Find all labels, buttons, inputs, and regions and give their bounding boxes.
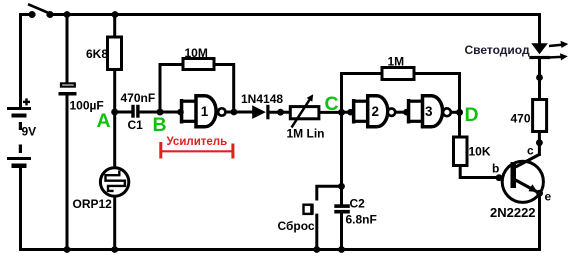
LDR ORP12 — [73, 168, 129, 211]
wire LED to 470 — [538, 57, 541, 100]
op-amp gate U1 NAND 1 — [196, 96, 226, 127]
node D — [456, 104, 479, 126]
svg-text:1N4148: 1N4148 — [241, 92, 283, 106]
svg-text:D: D — [465, 104, 479, 126]
svg-text:C2: C2 — [350, 197, 366, 211]
resistor 1M — [382, 55, 414, 80]
svg-text:b: b — [492, 162, 499, 176]
node junction bottom rail at C2 — [338, 246, 345, 253]
resistor 6K8 — [86, 37, 122, 70]
wire 100uF to bottom rail — [66, 96, 69, 250]
wire 1M to node D — [413, 74, 460, 113]
svg-text:10M: 10M — [185, 46, 208, 60]
svg-text:ORP12: ORP12 — [73, 197, 113, 211]
wire battery to bottom rail — [19, 168, 22, 251]
wire top rail to 6K8 — [113, 16, 116, 38]
wire top rail corner down to LED — [538, 13, 541, 44]
gate 2 input tie bracket — [352, 99, 367, 124]
svg-text:B: B — [153, 114, 167, 136]
svg-text:1M Lin: 1M Lin — [287, 127, 325, 141]
svg-text:Усилитель: Усилитель — [167, 136, 228, 148]
wire diode to potentiometer — [270, 111, 292, 114]
capacitor 100µF — [59, 83, 104, 112]
gate 3 input tie bracket — [407, 99, 422, 124]
node junction C2 branch — [338, 183, 345, 190]
svg-text:10K: 10K — [469, 144, 491, 158]
wire C1 to node B — [140, 111, 161, 114]
LED Светодиод — [465, 41, 569, 61]
resistor 10K — [454, 137, 491, 166]
node junction bottom rail at 100uF — [64, 246, 71, 253]
svg-text:6K8: 6K8 — [86, 47, 108, 61]
node junction collector — [536, 139, 543, 146]
gate 2 NAND — [368, 96, 395, 127]
wire node A down to ORP12 — [113, 112, 116, 168]
pushbutton Сброс — [278, 204, 315, 233]
node junction bottom rail at ORP12 — [111, 246, 118, 253]
wire 6K8 to node A — [113, 70, 116, 113]
wire pushbutton lower contact to bottom rail — [315, 214, 318, 250]
node B — [153, 109, 167, 137]
wire node C down to C2 branch — [340, 112, 343, 205]
potentiometer 1M Lin — [287, 94, 325, 140]
svg-text:C: C — [325, 93, 339, 115]
transistor Q1 2N2222 — [490, 144, 552, 221]
wire bottom rail — [19, 248, 541, 251]
node junction gate1 output / feedback — [231, 109, 238, 116]
wire 10K to transistor base — [460, 166, 500, 178]
wire gate1 output — [226, 111, 236, 114]
capacitor C2 6.8nF — [334, 197, 377, 227]
wire node B to gate1 inputs — [160, 111, 180, 114]
svg-text:2: 2 — [372, 104, 380, 119]
svg-text:3: 3 — [425, 104, 433, 119]
wire top rail main — [47, 13, 540, 16]
svg-text:e: e — [545, 190, 552, 204]
wire left vertical to battery — [19, 13, 22, 108]
svg-text:C1: C1 — [128, 118, 144, 132]
node junction bottom rail at pushbutton — [313, 246, 320, 253]
svg-text:9V: 9V — [22, 125, 37, 139]
svg-text:1: 1 — [201, 104, 209, 119]
capacitor C1 470nF — [121, 91, 156, 132]
svg-text:Сброс: Сброс — [278, 219, 315, 233]
wire collector up to 470 — [538, 132, 541, 157]
wire branch to pushbutton — [317, 186, 342, 200]
wire gate3 output to node D — [451, 111, 461, 114]
wire to diode — [235, 111, 253, 114]
wire potentiometer to node C — [319, 111, 343, 114]
wire ORP12 to bottom rail — [113, 198, 116, 250]
node junction below LED — [536, 74, 543, 81]
wire node C up to 1M feedback — [342, 74, 384, 113]
svg-text:1M: 1M — [388, 55, 405, 69]
node junction top rail at 6K8 branch — [112, 11, 119, 18]
battery 9V — [7, 98, 36, 168]
wire top rail to 100uF — [66, 16, 69, 83]
wire node B up to 10M feedback — [160, 65, 184, 113]
label Усилитель bracket — [159, 136, 234, 159]
switch S1 — [28, 4, 54, 18]
node A — [97, 109, 119, 133]
svg-text:c: c — [527, 144, 534, 158]
node junction transistor base — [496, 174, 503, 181]
svg-text:470nF: 470nF — [121, 91, 156, 105]
wire 10M to gate1 output — [213, 65, 234, 113]
wire node D to 10K — [458, 112, 461, 137]
node junction after diode — [277, 109, 284, 116]
node C — [325, 93, 346, 116]
svg-text:A: A — [97, 110, 111, 132]
diode D1 1N4148 — [241, 92, 283, 119]
wire C2 to bottom rail — [340, 214, 343, 250]
wire node C to gate2 inputs — [342, 111, 352, 114]
svg-text:470: 470 — [511, 111, 531, 125]
node junction gate3 input — [403, 109, 410, 116]
svg-text:2N2222: 2N2222 — [490, 205, 536, 220]
wire node A to C1 — [115, 111, 132, 114]
gate U1 input tie bracket — [180, 99, 195, 124]
node junction gate2 input — [347, 109, 354, 116]
resistor 470 — [511, 100, 547, 132]
wire top rail left stub — [19, 13, 36, 16]
svg-text:Светодиод: Светодиод — [465, 43, 530, 57]
node junction top rail at 100uF branch — [64, 11, 71, 18]
node junction gate1 input — [177, 109, 184, 116]
wire emitter to bottom rail — [538, 193, 541, 250]
resistor 10M — [183, 46, 214, 70]
wire gate2 output — [395, 111, 407, 114]
gate 3 NAND — [423, 96, 451, 127]
svg-text:6.8nF: 6.8nF — [346, 213, 377, 227]
